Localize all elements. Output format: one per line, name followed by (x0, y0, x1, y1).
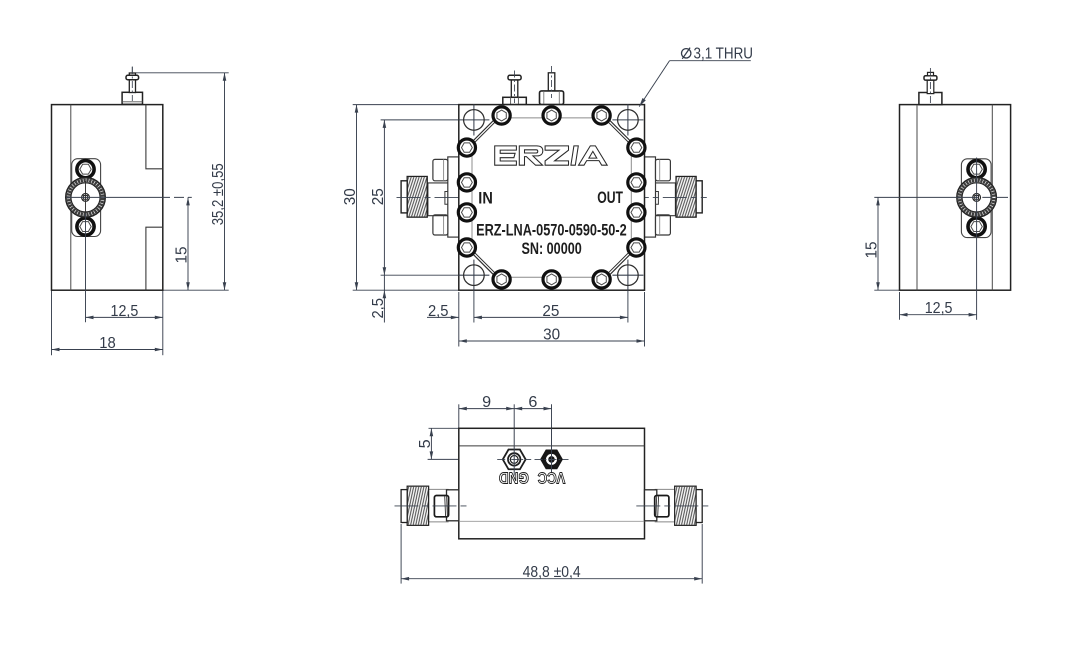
svg-text:GND: GND (499, 468, 529, 485)
svg-text:12,5: 12,5 (111, 303, 139, 320)
svg-text:9: 9 (482, 394, 491, 411)
svg-text:35,2 ±0,55: 35,2 ±0,55 (210, 163, 227, 225)
svg-text:3,1 THRU: 3,1 THRU (694, 46, 754, 63)
svg-text:15: 15 (863, 241, 880, 258)
svg-text:2,5: 2,5 (370, 298, 387, 319)
svg-text:SN: 00000: SN: 00000 (521, 239, 581, 258)
svg-text:12,5: 12,5 (925, 300, 953, 317)
svg-text:5: 5 (417, 439, 434, 448)
svg-text:OUT: OUT (597, 188, 623, 207)
svg-text:30: 30 (342, 188, 359, 205)
svg-text:18: 18 (99, 335, 116, 352)
svg-text:2,5: 2,5 (428, 303, 449, 320)
svg-text:6: 6 (528, 394, 537, 411)
svg-text:25: 25 (370, 188, 387, 205)
svg-text:25: 25 (542, 303, 559, 320)
svg-text:ERZ-LNA-0570-0590-50-2: ERZ-LNA-0570-0590-50-2 (476, 221, 627, 240)
svg-text:48,8 ±0,4: 48,8 ±0,4 (523, 564, 581, 581)
svg-text:30: 30 (543, 326, 560, 343)
svg-text:15: 15 (173, 246, 190, 263)
svg-text:VCC: VCC (538, 468, 566, 485)
svg-text:IN: IN (478, 189, 493, 208)
